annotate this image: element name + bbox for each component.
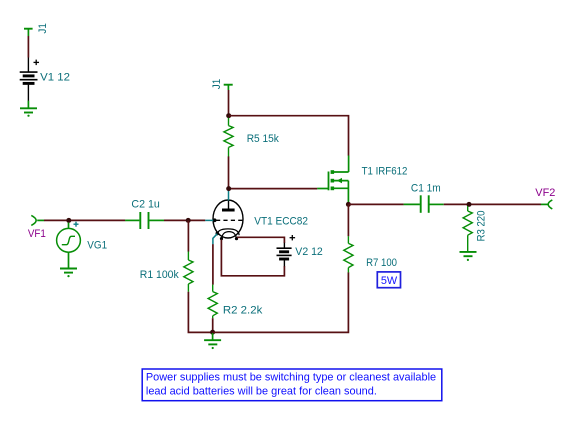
svg-text:C2 1u: C2 1u bbox=[131, 199, 159, 211]
resistor R3 bbox=[463, 206, 472, 252]
grid pin dot bbox=[213, 218, 217, 222]
node (grid/R1) bbox=[186, 218, 191, 223]
wire R2 to rail bbox=[212, 318, 214, 332]
connector J1 (top left terminal) bbox=[24, 29, 33, 36]
battery V2 bbox=[277, 235, 296, 266]
bottom rail wire bbox=[213, 272, 349, 332]
ground (under VG1) bbox=[60, 252, 77, 272]
node (R3/VF2) bbox=[467, 202, 472, 207]
wire source to C1 bbox=[348, 203, 403, 205]
wire down to R1 bbox=[187, 220, 189, 251]
svg-text:J1: J1 bbox=[211, 79, 223, 89]
wire C1 to VF2 bbox=[444, 203, 541, 205]
ground (bottom rail) bbox=[204, 333, 221, 344]
svg-text:Power supplies must be switchi: Power supplies must be switching type or… bbox=[146, 372, 436, 384]
node (top) bbox=[226, 113, 231, 118]
svg-text:VT1 ECC82: VT1 ECC82 bbox=[254, 215, 308, 227]
svg-text:R2 2.2k: R2 2.2k bbox=[223, 305, 263, 317]
resistor R2 bbox=[208, 285, 217, 319]
wire R5 to anode node bbox=[228, 156, 230, 186]
resistor R7 bbox=[344, 236, 353, 272]
svg-text:R3 220: R3 220 bbox=[476, 211, 488, 242]
wire source down to R7 bbox=[347, 204, 349, 236]
ground (under R3) bbox=[460, 252, 477, 256]
svg-text:VF2: VF2 bbox=[535, 187, 555, 199]
svg-text:T1 IRF612: T1 IRF612 bbox=[362, 166, 408, 178]
top rail wire to drain bbox=[229, 116, 349, 156]
resistor R1 bbox=[184, 252, 193, 292]
wire cathode to R2 bbox=[212, 244, 214, 285]
annotation box bbox=[142, 369, 442, 401]
wire C2 to grid bbox=[164, 219, 205, 221]
grid pin stub bbox=[205, 219, 213, 221]
svg-text:VG1: VG1 bbox=[87, 239, 107, 251]
source VG1 bbox=[68, 223, 70, 229]
cathode pin stub bbox=[213, 234, 217, 245]
capacitor C2 bbox=[125, 212, 164, 229]
wire bbox=[27, 36, 29, 58]
svg-text:lead acid batteries will be gr: lead acid batteries will be great for cl… bbox=[146, 386, 377, 398]
node (bottom rail) bbox=[210, 330, 215, 335]
capacitor C1 bbox=[404, 195, 444, 213]
svg-text:C1 1m: C1 1m bbox=[411, 183, 441, 195]
svg-text:J1: J1 bbox=[37, 23, 49, 33]
triode VT1 bbox=[213, 200, 243, 238]
anode pin stub bbox=[228, 191, 230, 201]
wire R1 to bottom rail bbox=[188, 292, 212, 333]
cathode bbox=[217, 229, 239, 235]
svg-text:VF1: VF1 bbox=[28, 228, 46, 240]
anode bar bbox=[222, 209, 235, 212]
resistor R5 bbox=[224, 118, 233, 157]
heater bbox=[222, 232, 237, 239]
node (source) bbox=[346, 202, 351, 207]
terminal VF1 bbox=[31, 215, 36, 225]
svg-text:V2 12: V2 12 bbox=[295, 246, 323, 258]
terminal VF2 bbox=[548, 200, 552, 209]
svg-text:R1 100k: R1 100k bbox=[140, 269, 179, 281]
wire VF1 to C2 bbox=[44, 219, 125, 221]
wire J1 to node bbox=[228, 90, 230, 114]
battery V1 bbox=[20, 58, 39, 101]
mosfet T1 bbox=[317, 156, 348, 203]
note 5W bbox=[377, 272, 400, 288]
connector J1 (top middle terminal) bbox=[224, 85, 233, 90]
svg-text:R5 15k: R5 15k bbox=[247, 133, 280, 145]
wire gate bbox=[231, 188, 317, 190]
svg-text:R7 100: R7 100 bbox=[366, 257, 397, 269]
ground (under V1) bbox=[20, 101, 37, 113]
grid dashed bbox=[216, 219, 243, 221]
svg-text:V1 12: V1 12 bbox=[40, 72, 70, 84]
node (anode/gate) bbox=[226, 186, 231, 191]
node (VG1 junction) bbox=[66, 218, 71, 223]
svg-text:5W: 5W bbox=[381, 275, 398, 287]
heater supply loop wires bbox=[237, 237, 284, 243]
